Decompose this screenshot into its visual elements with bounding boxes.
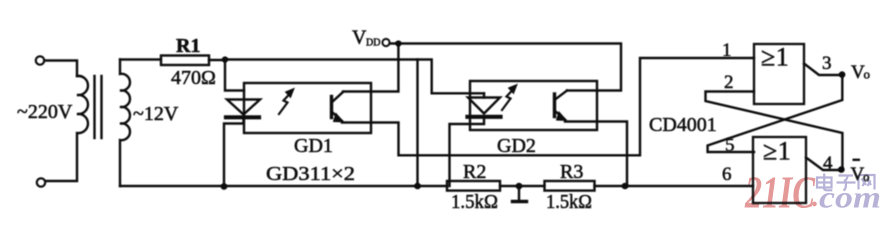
svg-text:R1: R1 xyxy=(176,35,200,57)
svg-text:o: o xyxy=(863,169,870,184)
svg-text:R2: R2 xyxy=(463,161,486,183)
svg-text:R3: R3 xyxy=(560,161,583,183)
svg-text:1: 1 xyxy=(722,40,732,61)
svg-text:o: o xyxy=(864,67,871,82)
svg-text:1.5kΩ: 1.5kΩ xyxy=(451,191,498,213)
svg-text:≥1: ≥1 xyxy=(761,43,789,72)
svg-text:5: 5 xyxy=(725,135,735,156)
svg-text:470Ω: 470Ω xyxy=(171,67,216,89)
svg-text:1.5kΩ: 1.5kΩ xyxy=(546,191,592,213)
svg-text:GD2: GD2 xyxy=(497,135,536,157)
svg-text:6: 6 xyxy=(722,164,732,185)
svg-text:3: 3 xyxy=(822,53,832,74)
svg-text:GD1: GD1 xyxy=(294,135,333,157)
svg-text:CD4001: CD4001 xyxy=(649,114,717,136)
svg-text:≥1: ≥1 xyxy=(763,137,791,166)
svg-text:GD311×2: GD311×2 xyxy=(266,163,355,185)
svg-text:DD: DD xyxy=(366,38,380,49)
svg-text:~12V: ~12V xyxy=(133,103,179,125)
svg-text:2: 2 xyxy=(724,72,734,93)
svg-text:V: V xyxy=(352,27,367,49)
svg-text:~220V: ~220V xyxy=(17,101,73,123)
svg-text:4: 4 xyxy=(823,153,833,174)
